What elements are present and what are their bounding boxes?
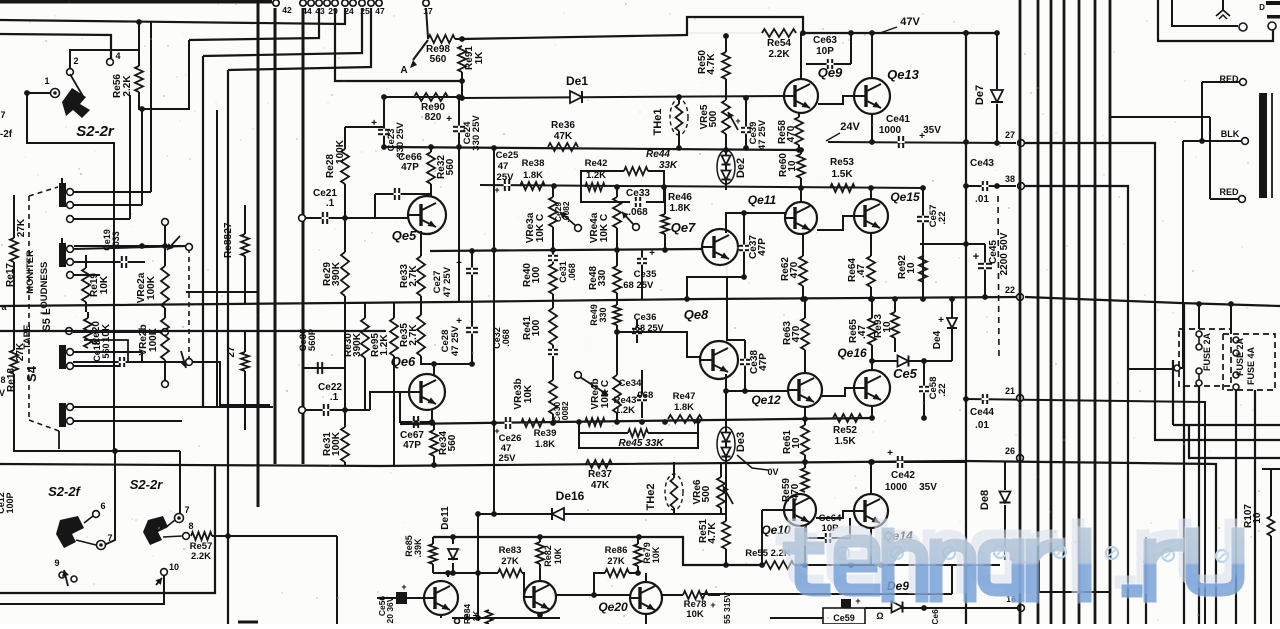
svg-text:+: +	[973, 251, 979, 263]
svg-text:6: 6	[100, 501, 105, 511]
svg-text:10K C: 10K C	[599, 214, 610, 242]
svg-text:47V: 47V	[900, 16, 920, 28]
svg-text:Ce42: Ce42	[891, 470, 915, 481]
svg-text:560: 560	[447, 434, 458, 451]
svg-text:29: 29	[328, 6, 338, 16]
potentiometer VRe2a	[136, 219, 180, 318]
svg-text:1.8K: 1.8K	[535, 439, 555, 450]
wire pad29 line y81	[335, 8, 462, 81]
node input bottom	[299, 407, 306, 414]
wire node22 branch	[1025, 297, 1280, 624]
resistor Re63	[782, 296, 809, 373]
resistor Re61	[782, 407, 809, 465]
svg-text:Re86: Re86	[605, 545, 628, 556]
transistor Qe20	[598, 582, 662, 614]
node 10	[155, 562, 179, 585]
wire rail y147	[381, 144, 800, 151]
svg-text:Qе16: Qе16	[837, 346, 867, 360]
svg-text:2: 2	[73, 56, 78, 66]
wire y469 stub	[1262, 468, 1280, 470]
resistor Re19	[82, 255, 110, 312]
resistor Re28	[325, 127, 349, 221]
svg-text:Re38: Re38	[522, 158, 545, 169]
wire rail y189	[480, 183, 926, 191]
wire Qe18-Qe20	[556, 592, 630, 598]
svg-text:Ce44: Ce44	[970, 407, 994, 418]
capacitor Ce86	[298, 328, 345, 374]
label LOUDNESS	[39, 262, 50, 315]
svg-text:THе1: THе1	[652, 109, 664, 136]
svg-text:2.2K: 2.2K	[768, 49, 790, 60]
wire Qe11 collector	[800, 189, 802, 202]
svg-text:10K C: 10K C	[535, 214, 546, 242]
wire bottom tick	[238, 621, 258, 624]
wire bus x1020	[1019, 0, 1022, 624]
svg-text:55 315V: 55 315V	[722, 592, 732, 624]
svg-text:8: 8	[0, 375, 5, 385]
diode De2	[717, 150, 747, 190]
svg-text:10: 10	[1252, 512, 1263, 524]
svg-text:10K: 10K	[651, 546, 661, 563]
capacitor Ce59 box	[823, 596, 865, 624]
node 7 S2-2f	[76, 533, 113, 550]
resistor Re18	[6, 331, 26, 420]
wire y127	[345, 126, 384, 128]
label De9	[887, 579, 909, 593]
wire J1 pin3	[73, 218, 130, 220]
resistor Re78	[662, 591, 720, 620]
resistor Re93	[873, 296, 899, 352]
potentiometer VRe3a	[525, 186, 581, 250]
capacitor Ce34	[619, 370, 654, 418]
resistor Re35	[399, 302, 434, 364]
wire De16 row	[475, 511, 726, 517]
svg-text:.01: .01	[975, 420, 989, 431]
svg-text:390K: 390K	[352, 332, 363, 357]
wire pad24 line y22	[0, 8, 345, 24]
potentiometer VRe5	[699, 100, 738, 153]
svg-text:Qе13: Qе13	[887, 67, 920, 82]
wire Qe10 base	[759, 510, 784, 568]
wire y458 row	[1189, 425, 1280, 458]
transistor Qe10	[761, 494, 816, 537]
svg-text:.39K: .39K	[413, 538, 423, 558]
svg-text:47P: 47P	[401, 162, 419, 173]
wire Re56 top	[136, 19, 142, 66]
svg-text:330: 330	[598, 307, 608, 322]
label Ce29	[553, 201, 571, 223]
svg-text:-2f: -2f	[0, 129, 13, 140]
svg-text:+: +	[938, 315, 944, 326]
svg-text:1.2K: 1.2K	[379, 334, 390, 356]
wire J2 pin2	[73, 261, 145, 263]
capacitor Ce66	[375, 152, 431, 218]
svg-text:S5 L: S5 L	[41, 308, 53, 332]
svg-text:+: +	[401, 582, 406, 592]
svg-text:+: +	[887, 448, 893, 459]
resistor Re38	[520, 158, 545, 190]
svg-text:Ce41: Ce41	[886, 114, 910, 125]
svg-text:560: 560	[445, 158, 456, 175]
svg-text:0V: 0V	[767, 467, 778, 477]
svg-text:25V: 25V	[497, 172, 515, 183]
resistor Re36	[548, 120, 578, 151]
label S5	[41, 308, 53, 332]
svg-text:Ce33: Ce33	[626, 188, 650, 199]
wire rail y292	[186, 291, 257, 293]
wire x130	[129, 95, 131, 219]
wire base row y573	[433, 570, 494, 576]
diode De8	[979, 462, 1011, 560]
wire Qe12 base node	[723, 374, 788, 425]
svg-text:FUSE 2A: FUSE 2A	[1202, 332, 1212, 371]
potentiometer VRe6	[692, 462, 733, 513]
svg-text:1.8K: 1.8K	[523, 170, 543, 181]
wire Qe7 emitter row	[684, 274, 747, 302]
svg-text:4.7K: 4.7K	[707, 522, 718, 544]
terminals top right	[1239, 1, 1280, 31]
capacitor Ce28	[440, 299, 478, 364]
svg-text:S2-2r: S2-2r	[76, 123, 115, 140]
svg-text:Qе15: Qе15	[890, 190, 920, 204]
svg-text:1.5K: 1.5K	[831, 169, 853, 180]
wire Qe7 base	[701, 247, 703, 249]
svg-text:Re88: Re88	[223, 234, 234, 258]
svg-text:Re53: Re53	[830, 157, 854, 168]
svg-text:Qе8: Qе8	[684, 307, 709, 322]
svg-text:Rе39: Rе39	[534, 428, 557, 439]
svg-text:S4: S4	[24, 365, 39, 382]
transistor Qe6	[391, 354, 445, 410]
resistor Re39	[521, 419, 556, 450]
wire pad47 line y69	[228, 8, 371, 70]
resistor Re52	[833, 414, 862, 447]
switch S2-2r wafer	[143, 516, 168, 545]
resistor Re46	[661, 187, 692, 250]
wire node10 drop	[0, 576, 164, 604]
svg-text:FUSE 2A: FUSE 2A	[1235, 337, 1245, 376]
transistor Qe7	[671, 220, 738, 265]
resistor Re83	[498, 545, 524, 595]
capacitor Ce18	[84, 340, 128, 367]
svg-text:10: 10	[169, 562, 179, 572]
wire bus vertical x275 from pad 42	[274, 8, 277, 464]
fuse box 2	[1223, 334, 1275, 390]
svg-text:Re37: Re37	[588, 469, 612, 480]
resistor Re50	[697, 36, 730, 100]
svg-text:RED: RED	[1219, 187, 1239, 197]
svg-text:Ce25: Ce25	[496, 150, 519, 161]
svg-text:47K: 47K	[591, 480, 610, 491]
wire Qe20 emitter	[645, 614, 647, 624]
svg-text:De8: De8	[979, 490, 991, 510]
wire Qe10-Qe14 link	[816, 511, 854, 518]
svg-text:9: 9	[464, 613, 469, 622]
resistor Re20	[84, 312, 112, 348]
svg-text:1.8K: 1.8K	[669, 203, 691, 214]
wire fuse out2	[1235, 390, 1237, 624]
node 16 row	[1039, 537, 1146, 624]
resistor Re60	[778, 147, 805, 189]
wire rail y363	[73, 362, 270, 405]
svg-text:De11: De11	[440, 506, 451, 530]
resistor Re90	[381, 93, 462, 123]
svg-text:47K: 47K	[554, 131, 573, 142]
wire box bottom	[0, 464, 215, 593]
svg-text:2.2K: 2.2K	[122, 75, 133, 97]
svg-text:500: 500	[701, 485, 712, 502]
capacitor Ce25	[494, 150, 519, 195]
svg-text:1.2K: 1.2K	[615, 405, 635, 416]
resistor Re45 box	[579, 421, 698, 449]
svg-text:De2: De2	[735, 158, 747, 178]
label Ce31	[558, 261, 577, 283]
transformer core	[1259, 93, 1272, 198]
svg-text:THе2: THе2	[645, 484, 657, 511]
wire node38 branch	[1025, 186, 1128, 624]
resistor Re92	[897, 255, 927, 282]
svg-text:+: +	[456, 316, 462, 327]
wire rail y250	[430, 247, 702, 254]
wire Re56 bottom loop	[139, 40, 189, 109]
resistor Re79	[634, 537, 661, 576]
svg-text:27K: 27K	[501, 556, 519, 567]
node input top	[299, 215, 306, 222]
wire J3 pin0	[73, 331, 161, 333]
svg-text:.68 25V: .68 25V	[621, 280, 654, 291]
diode De4	[869, 296, 957, 366]
wire contact2 to Re56	[70, 50, 139, 76]
node 7 S2-2r	[165, 505, 190, 528]
wire y451 top	[14, 408, 180, 454]
svg-text:.068: .068	[628, 207, 648, 218]
capacitor Ce63	[801, 33, 851, 69]
svg-text:De3: De3	[735, 432, 747, 452]
svg-text:100: 100	[531, 319, 542, 336]
label RED top	[1219, 74, 1246, 85]
capacitor Ce39	[735, 95, 768, 151]
wire contact1 left	[24, 90, 50, 96]
svg-text:35V: 35V	[919, 482, 937, 493]
svg-text:47 25V: 47 25V	[442, 266, 453, 297]
svg-text:100: 100	[531, 266, 542, 283]
wire Re57 to bus	[212, 533, 337, 539]
svg-text:4.7K: 4.7K	[706, 53, 717, 75]
capacitor Ce19	[102, 229, 128, 268]
svg-text:470: 470	[789, 261, 800, 278]
label -2f left edge	[0, 129, 13, 140]
capacitor Ce64	[806, 513, 850, 543]
svg-text:2.2K: 2.2K	[191, 551, 211, 562]
svg-text:820: 820	[425, 112, 442, 123]
resistor Re65	[848, 296, 876, 370]
svg-text:47: 47	[498, 161, 509, 172]
curve leader	[737, 455, 779, 477]
svg-text:330: 330	[597, 269, 608, 286]
wire x115 to wiper	[104, 451, 115, 545]
resistor Re64	[847, 233, 875, 302]
label Ce30	[552, 401, 570, 423]
resistor Re86	[594, 545, 638, 595]
svg-text:100K: 100K	[146, 275, 157, 300]
capacitor Ce26	[494, 417, 521, 464]
wire rail y565 cont	[802, 527, 808, 568]
svg-text:Re83: Re83	[499, 545, 522, 556]
potentiometer VRe2b	[138, 318, 188, 387]
svg-text:10K: 10K	[553, 547, 563, 564]
wire bus x1095	[1094, 0, 1097, 624]
node 27	[1005, 130, 1024, 146]
svg-text:+: +	[494, 185, 499, 195]
svg-text:38: 38	[1005, 174, 1015, 184]
wire x494 mid	[493, 148, 495, 514]
wire downleg x217	[216, 110, 218, 408]
node 8	[163, 521, 194, 539]
diode De1	[566, 74, 588, 103]
svg-text:27: 27	[1005, 130, 1015, 140]
wire pad25 line y54	[203, 8, 362, 56]
ground symbol top right	[1216, 0, 1230, 19]
resistor Re42	[585, 158, 608, 191]
capacitor Ce57 Re92	[917, 188, 948, 302]
svg-text:1000: 1000	[885, 482, 908, 493]
transistor Qe8	[684, 307, 738, 379]
svg-text:Ce63: Ce63	[813, 35, 837, 46]
label RED bottom	[1219, 187, 1245, 202]
svg-text:MONITER: MONITER	[25, 250, 36, 294]
wire Qe8 base feed	[614, 329, 701, 357]
wire downleg x228	[227, 70, 229, 624]
svg-text:2200 50V: 2200 50V	[999, 232, 1010, 275]
resistor Re43	[585, 395, 636, 426]
svg-text:Re46: Re46	[668, 192, 692, 203]
svg-text:4: 4	[115, 51, 120, 61]
wire x727 drop	[726, 277, 728, 339]
wire downleg x203	[202, 56, 204, 408]
node 21	[1005, 386, 1023, 401]
capacitor Ce67	[400, 392, 432, 451]
wire Qe6 base bend	[370, 392, 409, 410]
resistor Re57	[190, 532, 213, 562]
svg-text:7: 7	[0, 110, 5, 120]
wire x463 mid	[458, 147, 460, 302]
capacitor Ce41 row	[828, 114, 1016, 148]
svg-text:Ce59: Ce59	[833, 613, 855, 623]
transistor Qe13	[854, 67, 920, 114]
capacitor Ce43	[963, 158, 1016, 205]
svg-text:100P: 100P	[5, 492, 15, 513]
resistor Re84	[462, 604, 493, 625]
svg-text:+: +	[649, 248, 655, 259]
resistor Re54	[762, 29, 796, 60]
capacitor Ce35	[621, 248, 657, 299]
svg-text:47 25V: 47 25V	[450, 325, 461, 356]
svg-text:Rе45 33K: Rе45 33K	[618, 438, 664, 449]
svg-text:47P: 47P	[403, 440, 421, 451]
diode De10	[865, 594, 1024, 625]
label 9	[455, 613, 469, 624]
svg-text:Re17: Re17	[5, 263, 16, 287]
jack J4	[59, 403, 73, 427]
wire Qe14 collector	[868, 459, 874, 494]
capacitor Ce23	[371, 97, 406, 158]
svg-text:27K: 27K	[16, 218, 27, 237]
resistor Re44 box	[581, 149, 678, 187]
svg-text:33K: 33K	[659, 160, 678, 171]
jack J3	[59, 328, 73, 370]
svg-text:1: 1	[44, 76, 49, 86]
wire bus x1051	[1050, 0, 1053, 624]
svg-text:Re52: Re52	[833, 425, 857, 436]
resistor Re51	[698, 465, 730, 568]
capacitor Ce24	[446, 97, 482, 302]
svg-text:100K: 100K	[331, 431, 342, 456]
svg-text:Qе7: Qе7	[671, 220, 696, 235]
wire J2 pin1 rail	[73, 246, 190, 249]
svg-text:10K: 10K	[523, 384, 534, 403]
svg-text:+: +	[735, 116, 740, 126]
svg-text:21: 21	[1005, 386, 1015, 396]
capacitor Ce44	[963, 394, 1205, 624]
svg-text:Ce43: Ce43	[970, 158, 994, 169]
wire J2 pin3	[73, 274, 100, 276]
wire x180 to wiper	[179, 451, 181, 515]
svg-text:Re82: Re82	[543, 545, 553, 567]
transistor Qe15	[854, 190, 920, 233]
svg-text:10K: 10K	[99, 275, 110, 294]
svg-text:10: 10	[791, 437, 802, 449]
wire Qe15 base	[817, 216, 854, 230]
wire J4 pin1	[73, 406, 273, 408]
resistor Re85	[404, 535, 437, 573]
wire pad43 line y38	[189, 8, 319, 40]
svg-text:26: 26	[1005, 446, 1015, 456]
svg-text:Qе9: Qе9	[818, 65, 843, 80]
svg-text:330 25V: 330 25V	[471, 115, 482, 151]
svg-text:10: 10	[906, 262, 917, 274]
svg-text:2.7K: 2.7K	[408, 265, 419, 287]
fuse box 1	[1179, 329, 1231, 386]
dashed wire x189	[186, 244, 193, 366]
wire emitter rail bottom	[441, 612, 560, 618]
transistor Qe11	[748, 193, 817, 234]
wire bus vertical x303 from pad 44	[302, 8, 305, 464]
wire bus x1110	[1109, 0, 1112, 624]
resistor Re95	[370, 302, 398, 466]
wire rail y246	[74, 243, 190, 249]
wire BLK lead	[1174, 138, 1241, 371]
label MONITER	[25, 250, 36, 294]
capacitor Ce33	[581, 187, 664, 218]
resistor Re58	[777, 112, 803, 153]
resistor Re30	[343, 302, 369, 410]
svg-text:27: 27	[223, 222, 234, 234]
watermark circles	[837, 546, 1228, 562]
wire Qe8 top link	[727, 339, 745, 340]
resistor Re82	[536, 537, 563, 581]
resistor Re37	[586, 460, 612, 491]
switch S2-2r label	[76, 123, 115, 140]
svg-text:47: 47	[375, 6, 385, 16]
svg-text:Re18: Re18	[6, 368, 17, 392]
svg-text:.068: .068	[501, 329, 511, 347]
transistor Qe18	[524, 581, 556, 613]
resistor Re55	[745, 548, 1000, 569]
wire bus x1064	[1063, 0, 1066, 624]
node 6	[84, 501, 106, 523]
wire 47V step	[462, 17, 803, 39]
wire Qe16 base	[822, 388, 854, 396]
